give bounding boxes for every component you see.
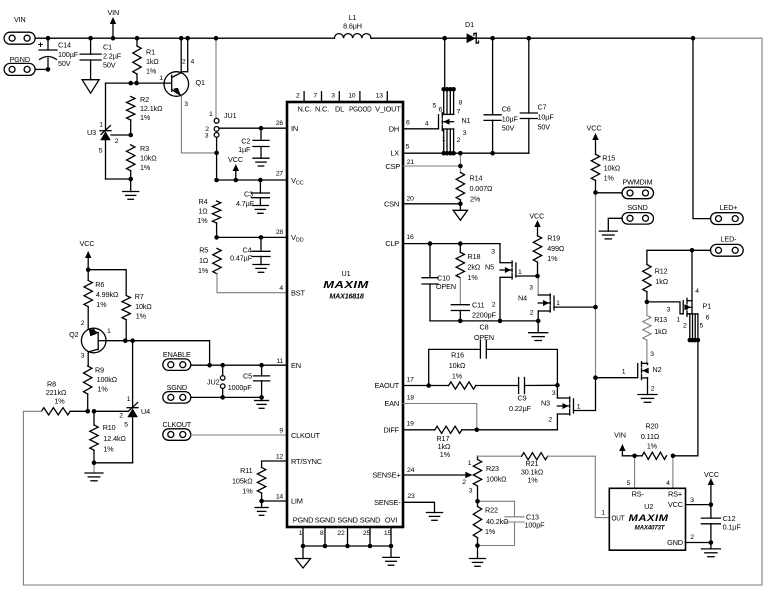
wire CSN net xyxy=(403,203,460,205)
svg-text:8.6µH: 8.6µH xyxy=(343,22,362,31)
capacitor C1 xyxy=(90,38,92,54)
svg-text:OUT: OUT xyxy=(612,513,626,522)
capacitor C9 xyxy=(518,378,520,394)
resistor R4 xyxy=(212,201,220,223)
svg-text:C6: C6 xyxy=(502,105,511,114)
resistor R20 xyxy=(642,452,666,459)
svg-text:GND: GND xyxy=(667,538,683,547)
junction xyxy=(130,338,135,343)
svg-text:C9: C9 xyxy=(518,394,527,403)
svg-text:Q1: Q1 xyxy=(196,78,205,87)
capacitor C7 xyxy=(528,38,530,113)
junction xyxy=(214,151,219,156)
svg-text:DH: DH xyxy=(389,125,399,134)
svg-text:V_IOUT: V_IOUT xyxy=(375,105,401,114)
wire N2 gate xyxy=(596,377,638,379)
junction xyxy=(690,248,695,253)
svg-text:3: 3 xyxy=(184,101,188,108)
svg-text:499Ω: 499Ω xyxy=(547,244,565,253)
wire IN net (JU1-2 to pin26) xyxy=(219,127,287,129)
svg-text:CSP: CSP xyxy=(385,162,400,171)
junction xyxy=(301,544,306,549)
svg-text:0.47µF: 0.47µF xyxy=(230,254,253,263)
ground PGND triangle under C1 xyxy=(82,80,99,94)
svg-text:PWMDIM: PWMDIM xyxy=(622,178,652,187)
junction xyxy=(128,177,133,182)
svg-text:MAX16818: MAX16818 xyxy=(329,294,364,301)
resistor R10 xyxy=(93,411,95,425)
svg-text:N.C.: N.C. xyxy=(315,105,329,114)
svg-text:2: 2 xyxy=(457,137,461,144)
svg-text:MAXIM: MAXIM xyxy=(323,279,369,291)
wire R20 left xyxy=(622,455,642,457)
junction xyxy=(593,305,598,310)
svg-text:OPEN: OPEN xyxy=(436,282,456,291)
power VCC arrow (U2) xyxy=(710,484,712,505)
wire U3 cathode riser xyxy=(105,83,107,131)
svg-text:3: 3 xyxy=(529,285,533,292)
junction xyxy=(536,319,541,324)
ground under R22 xyxy=(477,546,479,559)
svg-text:R11: R11 xyxy=(240,466,252,475)
junction xyxy=(693,338,698,343)
svg-text:2: 2 xyxy=(296,92,300,99)
wire DIFF net / resistor R17 xyxy=(403,429,435,431)
svg-text:21: 21 xyxy=(407,159,415,166)
svg-text:RS+: RS+ xyxy=(668,490,682,499)
wire JU1-3 to VCC node xyxy=(216,137,218,180)
svg-text:R14: R14 xyxy=(470,174,483,183)
transistor Q1 xyxy=(180,38,182,71)
svg-text:VCC: VCC xyxy=(704,470,719,479)
svg-text:R15: R15 xyxy=(602,154,615,163)
svg-text:0.1µF: 0.1µF xyxy=(723,523,742,532)
junction xyxy=(475,428,480,433)
node R3 bottom xyxy=(106,178,131,180)
junction xyxy=(709,540,714,545)
op-amp U1 MAX16818 body xyxy=(287,102,403,527)
wire EN net to pin11 xyxy=(191,364,287,366)
svg-text:Q2: Q2 xyxy=(69,330,78,339)
junction xyxy=(323,544,328,549)
junction xyxy=(696,338,701,343)
wire N4 gate xyxy=(554,306,596,308)
junction xyxy=(458,319,463,324)
svg-text:1%: 1% xyxy=(198,266,209,275)
connector LED+ xyxy=(711,213,744,225)
svg-text:VCC: VCC xyxy=(529,212,544,221)
svg-text:OVI: OVI xyxy=(385,515,397,524)
junction xyxy=(259,235,264,240)
wire U2 GND pin2 xyxy=(686,542,711,544)
svg-text:5: 5 xyxy=(433,103,437,110)
svg-text:1%: 1% xyxy=(440,450,451,459)
svg-text:C8: C8 xyxy=(480,323,489,332)
svg-text:VIN: VIN xyxy=(107,8,119,17)
svg-text:R23: R23 xyxy=(486,464,499,473)
svg-text:SGND: SGND xyxy=(360,515,381,524)
junction xyxy=(128,133,133,138)
capacitor C11 xyxy=(459,278,461,305)
wire SGND jog to ground xyxy=(608,218,622,231)
capacitor C12 xyxy=(710,505,712,518)
svg-text:1%: 1% xyxy=(146,67,157,76)
svg-text:1%: 1% xyxy=(485,527,496,536)
transistor N2 xyxy=(637,364,639,378)
power VIN arrow (R20) xyxy=(621,450,623,456)
svg-text:1: 1 xyxy=(159,75,163,82)
junction xyxy=(259,126,264,131)
jumper JU2 xyxy=(222,365,224,375)
junction xyxy=(134,81,139,86)
svg-text:10kΩ: 10kΩ xyxy=(449,361,466,370)
power VCC arrow (node) xyxy=(235,170,237,181)
svg-text:LX: LX xyxy=(390,148,399,157)
svg-text:20: 20 xyxy=(407,195,415,202)
svg-text:1: 1 xyxy=(468,460,472,467)
svg-text:105kΩ: 105kΩ xyxy=(232,477,253,486)
svg-text:C3: C3 xyxy=(244,190,253,199)
svg-text:U4: U4 xyxy=(141,407,150,416)
svg-text:2: 2 xyxy=(548,417,552,424)
resistor R15 xyxy=(591,154,599,180)
resistor R8 xyxy=(41,408,70,415)
connector CLKOUT xyxy=(163,429,191,441)
svg-text:1%: 1% xyxy=(136,312,147,321)
svg-text:N5: N5 xyxy=(485,263,494,272)
junction xyxy=(490,36,495,41)
svg-text:1%: 1% xyxy=(647,442,658,451)
wire PGND stub xyxy=(35,68,48,70)
svg-text:6: 6 xyxy=(406,120,410,127)
svg-text:DIFF: DIFF xyxy=(383,425,399,434)
svg-text:1%: 1% xyxy=(197,216,208,225)
wire VIN rail (top) xyxy=(35,37,334,39)
svg-text:C14: C14 xyxy=(58,41,71,50)
U1 bottom ground bus xyxy=(302,527,304,546)
svg-text:12.1kΩ: 12.1kΩ xyxy=(140,104,163,113)
junction xyxy=(123,338,128,343)
svg-text:R3: R3 xyxy=(140,144,149,153)
ground under N2 xyxy=(638,394,657,396)
svg-text:SGND: SGND xyxy=(627,203,647,212)
svg-text:JU1: JU1 xyxy=(224,111,237,120)
svg-text:1%: 1% xyxy=(140,163,151,172)
connector J-PGND xyxy=(4,63,35,75)
svg-text:1: 1 xyxy=(577,404,581,411)
junction xyxy=(259,395,264,400)
svg-text:R16: R16 xyxy=(451,351,464,360)
junction xyxy=(458,241,463,246)
svg-text:100µF: 100µF xyxy=(58,50,79,59)
junction xyxy=(92,461,97,466)
svg-text:3: 3 xyxy=(491,249,495,256)
svg-text:18: 18 xyxy=(407,395,415,402)
svg-text:EN: EN xyxy=(291,361,301,370)
svg-text:N4: N4 xyxy=(518,294,527,303)
svg-text:2%: 2% xyxy=(470,195,481,204)
svg-text:SENSE+: SENSE+ xyxy=(372,471,400,480)
svg-text:3: 3 xyxy=(469,488,473,495)
svg-text:CSN: CSN xyxy=(384,199,399,208)
svg-text:1%: 1% xyxy=(242,487,253,496)
transistor N1 xyxy=(444,38,446,89)
wire compensation bottom net xyxy=(430,320,538,322)
svg-text:2: 2 xyxy=(690,534,694,541)
junction xyxy=(111,36,116,41)
junction xyxy=(259,363,264,368)
ground PGND triangle (pin1) xyxy=(302,546,304,559)
junction xyxy=(214,36,219,41)
ground under C12 xyxy=(710,543,712,549)
junction xyxy=(632,454,637,459)
svg-text:1kΩ: 1kΩ xyxy=(654,327,667,336)
svg-text:1: 1 xyxy=(107,328,111,335)
svg-text:LED-: LED- xyxy=(721,235,738,244)
junction xyxy=(475,499,480,504)
wire BST to pin4 xyxy=(217,274,287,293)
svg-text:16: 16 xyxy=(406,234,414,241)
junction xyxy=(389,544,394,549)
ground under C2 xyxy=(253,157,269,159)
ground under R3 xyxy=(130,179,132,192)
wire Q2 base net to enable xyxy=(106,341,210,366)
svg-text:R19: R19 xyxy=(547,234,560,243)
junction xyxy=(234,178,239,183)
svg-text:50V: 50V xyxy=(502,124,515,133)
ground under R11 xyxy=(261,501,263,508)
svg-text:1: 1 xyxy=(99,122,103,129)
svg-text:3: 3 xyxy=(650,351,654,358)
svg-text:R6: R6 xyxy=(95,280,104,289)
junction xyxy=(709,502,714,507)
junction xyxy=(688,338,693,343)
svg-text:23: 23 xyxy=(407,493,415,500)
diode D1 (schottky) xyxy=(467,33,476,43)
svg-text:CLKOUT: CLKOUT xyxy=(163,420,192,429)
svg-text:10kΩ: 10kΩ xyxy=(135,302,152,311)
junction xyxy=(441,87,446,92)
capacitor C10 xyxy=(429,244,431,278)
power VCC arrow (R15) xyxy=(595,139,597,155)
svg-text:22: 22 xyxy=(337,530,345,537)
svg-text:N2: N2 xyxy=(653,365,662,374)
svg-text:1%: 1% xyxy=(96,300,107,309)
svg-text:1%: 1% xyxy=(452,372,463,381)
power VCC arrow (R19) xyxy=(537,226,539,236)
svg-text:2: 2 xyxy=(115,138,119,145)
svg-text:RS-: RS- xyxy=(632,490,645,499)
wire LED- net xyxy=(647,250,711,264)
svg-text:VIN: VIN xyxy=(614,431,626,440)
svg-text:R12: R12 xyxy=(655,267,668,276)
svg-text:U1: U1 xyxy=(342,269,351,278)
svg-text:RT/SYNC: RT/SYNC xyxy=(291,457,323,466)
ground under N4 source xyxy=(537,321,539,333)
ground SGND (pin15) xyxy=(390,546,392,557)
svg-text:1: 1 xyxy=(209,111,213,118)
svg-text:1%: 1% xyxy=(604,174,615,183)
wire Q1 emitter to JU1-3 xyxy=(181,96,216,153)
svg-text:P1: P1 xyxy=(703,302,712,311)
junction xyxy=(445,87,450,92)
svg-text:10kΩ: 10kΩ xyxy=(140,154,157,163)
svg-text:12: 12 xyxy=(276,454,284,461)
ground under R10 xyxy=(93,463,95,473)
svg-text:0.22µF: 0.22µF xyxy=(509,404,532,413)
wire R23 top to R21 xyxy=(478,455,522,457)
svg-text:2kΩ: 2kΩ xyxy=(468,263,481,272)
svg-text:4: 4 xyxy=(279,285,283,292)
wire SENSE- to ground xyxy=(403,502,435,512)
wire CSP to R14 xyxy=(403,165,460,167)
junction xyxy=(426,383,431,388)
capacitor C3 xyxy=(259,180,261,193)
svg-text:R2: R2 xyxy=(140,95,149,104)
capacitor C13 xyxy=(478,501,515,517)
svg-text:8: 8 xyxy=(459,100,463,107)
svg-text:4.7µF: 4.7µF xyxy=(236,199,255,208)
svg-text:12.4kΩ: 12.4kΩ xyxy=(103,434,126,443)
wire node to U4 ref xyxy=(94,410,127,412)
svg-text:1: 1 xyxy=(556,300,560,307)
svg-text:17: 17 xyxy=(407,377,415,384)
wire EAOUT net / resistor R16 xyxy=(403,385,449,387)
svg-text:4: 4 xyxy=(695,288,699,295)
svg-text:IN: IN xyxy=(291,124,298,133)
wire U4 cathode riser xyxy=(132,341,134,408)
junction xyxy=(593,190,598,195)
svg-text:3: 3 xyxy=(667,307,671,314)
svg-text:10µF: 10µF xyxy=(502,115,519,124)
jumper JU1 xyxy=(215,38,217,118)
junction xyxy=(220,395,225,400)
svg-text:1000pF: 1000pF xyxy=(228,383,252,392)
svg-text:R20: R20 xyxy=(646,422,659,431)
potentiometer R23 xyxy=(403,474,466,476)
svg-text:1Ω: 1Ω xyxy=(199,256,209,265)
junction xyxy=(179,36,184,41)
resistor R3 xyxy=(127,145,135,171)
svg-text:4.99kΩ: 4.99kΩ xyxy=(96,290,119,299)
ground under C4 xyxy=(253,264,269,266)
svg-text:100kΩ: 100kΩ xyxy=(97,375,118,384)
connector ENABLE xyxy=(163,359,191,371)
svg-text:VCC: VCC xyxy=(668,500,684,509)
resistor R22 xyxy=(477,501,479,506)
svg-text:1Ω: 1Ω xyxy=(198,207,208,216)
connector J-VIN xyxy=(4,32,35,44)
svg-text:0.007Ω: 0.007Ω xyxy=(470,184,493,193)
svg-text:2: 2 xyxy=(81,320,85,327)
junction xyxy=(258,178,263,183)
svg-text:VCC: VCC xyxy=(80,239,95,248)
svg-text:EAOUT: EAOUT xyxy=(375,381,400,390)
svg-text:3: 3 xyxy=(205,133,209,140)
svg-text:CLKOUT: CLKOUT xyxy=(291,431,320,440)
wire LED+ branch xyxy=(693,38,711,218)
svg-text:2: 2 xyxy=(492,302,496,309)
wire to R7 top xyxy=(88,270,126,296)
svg-text:R7: R7 xyxy=(135,292,144,301)
junction xyxy=(458,202,463,207)
svg-text:10µF: 10µF xyxy=(538,113,555,122)
resistor R9 xyxy=(87,353,89,366)
junction xyxy=(691,36,696,41)
wire P1 gate jog xyxy=(647,302,683,314)
svg-text:5: 5 xyxy=(406,144,410,151)
svg-text:1%: 1% xyxy=(468,273,479,282)
junction xyxy=(368,544,373,549)
svg-text:3: 3 xyxy=(690,497,694,504)
capacitor C4 xyxy=(260,237,262,251)
resistor R12 xyxy=(643,265,651,292)
svg-text:8: 8 xyxy=(320,530,324,537)
junction xyxy=(220,363,225,368)
svg-text:7: 7 xyxy=(457,109,461,116)
junction xyxy=(207,363,212,368)
resistor R5 xyxy=(213,248,221,273)
wire P1 drain to R20 xyxy=(673,340,698,456)
wire LIM to pin14 xyxy=(262,500,287,502)
transistor P1 xyxy=(691,250,693,300)
svg-text:5: 5 xyxy=(700,322,704,329)
svg-text:2.2µF: 2.2µF xyxy=(103,52,122,61)
wire EAN net xyxy=(403,404,477,430)
junction xyxy=(428,241,433,246)
capacitor C5 xyxy=(261,365,263,376)
junction xyxy=(345,544,350,549)
junction xyxy=(259,499,264,504)
wire PWMDIM net vertical xyxy=(595,193,597,378)
wire CLKOUT to pin9 xyxy=(191,434,287,436)
svg-text:100kΩ: 100kΩ xyxy=(486,475,507,484)
capacitor C14 xyxy=(47,38,49,50)
junction xyxy=(475,543,480,548)
resistor R19 xyxy=(533,236,541,262)
svg-text:R18: R18 xyxy=(468,252,481,261)
svg-text:VCC: VCC xyxy=(228,155,243,164)
svg-text:1%: 1% xyxy=(140,113,151,122)
svg-text:CLP: CLP xyxy=(385,239,399,248)
svg-text:N3: N3 xyxy=(541,399,550,408)
svg-text:LED+: LED+ xyxy=(720,203,738,212)
svg-text:0.11Ω: 0.11Ω xyxy=(641,432,660,441)
svg-text:13: 13 xyxy=(376,92,384,99)
svg-text:R4: R4 xyxy=(199,197,208,206)
svg-text:3: 3 xyxy=(81,353,85,360)
ground under SGND jog xyxy=(599,230,617,232)
svg-text:R13: R13 xyxy=(654,315,667,324)
transistor Q2 xyxy=(81,328,106,353)
wire N5 gate to R19 xyxy=(516,275,538,277)
svg-text:D1: D1 xyxy=(465,20,474,29)
svg-text:C11: C11 xyxy=(472,301,484,310)
wire U2 VCC pin3 xyxy=(686,504,711,506)
svg-text:5: 5 xyxy=(124,421,128,428)
svg-text:BST: BST xyxy=(291,289,305,298)
svg-text:R9: R9 xyxy=(95,366,104,375)
power VIN arrow top xyxy=(112,23,114,39)
svg-text:7: 7 xyxy=(313,92,317,99)
svg-text:MAXIM: MAXIM xyxy=(629,513,669,523)
junction xyxy=(92,409,97,414)
connector SGND (left) xyxy=(163,392,191,404)
svg-text:3: 3 xyxy=(331,92,335,99)
svg-text:1%: 1% xyxy=(527,476,538,485)
svg-text:PGND: PGND xyxy=(293,515,314,524)
wire RS- sense lead xyxy=(634,456,636,489)
